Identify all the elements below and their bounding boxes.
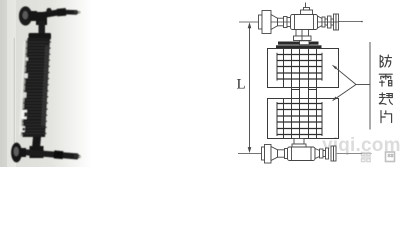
top centerline <box>239 21 262 23</box>
bottom centerline <box>238 153 262 155</box>
chamber tube verticals <box>284 49 317 139</box>
upper fin block outline <box>268 49 339 88</box>
top valve body <box>291 15 318 30</box>
top union ring 2 <box>287 18 291 27</box>
bottom union ring <box>285 149 288 159</box>
finned body (skewed for photo tilt) <box>19 38 51 137</box>
bottom flange disc <box>11 143 22 163</box>
top flange disc <box>262 11 271 34</box>
top flange hub <box>259 15 263 29</box>
top right taper <box>318 16 323 28</box>
watermark CJK 器 <box>361 153 371 162</box>
lower fin end ticks <box>277 102 322 136</box>
top right flange pair <box>334 14 337 30</box>
bottom right ring <box>320 149 324 158</box>
bottom pipe <box>22 152 78 157</box>
top stem <box>39 21 46 35</box>
L dimension line <box>248 22 252 153</box>
top union ring 1 <box>284 17 288 28</box>
bottom right flange pair <box>331 146 334 161</box>
bottom right neck <box>323 151 326 157</box>
bottom flange hub <box>262 147 265 160</box>
top neck <box>278 18 284 26</box>
top right neck <box>325 19 328 25</box>
upper fins <box>277 55 322 80</box>
top right neck 2 <box>331 19 334 25</box>
top valve stem line <box>305 3 307 8</box>
photo light band <box>7 0 16 167</box>
label 片 <box>381 111 392 123</box>
bottom right taper <box>315 149 320 159</box>
photo device group <box>11 6 81 162</box>
top right ring <box>322 17 325 27</box>
label 防 <box>380 55 391 67</box>
top taper <box>271 15 278 30</box>
gap rungs <box>292 89 300 91</box>
bottom neck <box>32 137 41 148</box>
photo background <box>0 0 92 167</box>
bottom valve body <box>288 147 316 161</box>
upper fin end ticks <box>277 53 322 81</box>
top flange disc <box>19 6 32 25</box>
leader vertical line <box>369 42 371 130</box>
thin background rod line <box>13 38 15 143</box>
label 霜 <box>379 74 392 86</box>
top body flange dark bars <box>278 42 300 45</box>
watermark CJK 网 <box>386 152 395 162</box>
top body flange hub outline <box>300 41 310 45</box>
top right ring 2 <box>328 16 332 28</box>
top right pipe line <box>339 21 362 23</box>
svg-text:L: L <box>237 77 246 93</box>
leader lines <box>333 42 371 130</box>
bottom right pipe line <box>336 153 362 155</box>
top pipe <box>31 12 62 17</box>
bottom right ring 2 <box>326 148 329 159</box>
lower fins <box>277 104 322 135</box>
top centerline over fittings <box>271 21 291 23</box>
bottom neck under body <box>294 139 304 145</box>
bottom flange disc <box>265 145 272 164</box>
bottom taper <box>271 147 278 161</box>
top valve bonnet <box>301 10 313 15</box>
body top flange <box>29 33 52 40</box>
label 翅 <box>379 93 392 105</box>
lower fin block outline <box>268 99 339 139</box>
bottom tee <box>30 146 44 158</box>
leader arrowheads <box>333 65 338 69</box>
neck below top valve <box>296 30 309 37</box>
bottom neck <box>278 150 285 157</box>
white tags on body <box>25 58 28 61</box>
top tee <box>36 12 47 25</box>
